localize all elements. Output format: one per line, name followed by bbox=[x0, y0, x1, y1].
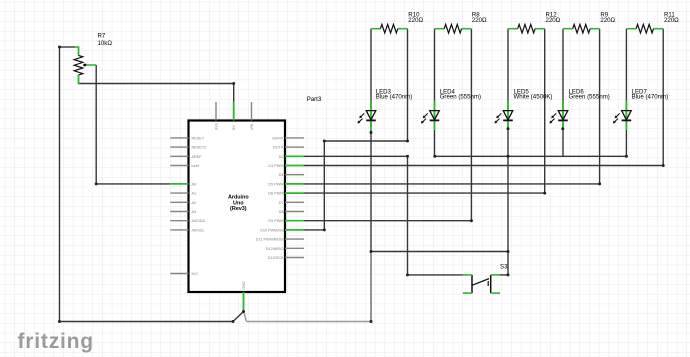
svg-text:RESET: RESET bbox=[192, 136, 205, 140]
svg-text:220Ω: 220Ω bbox=[664, 17, 679, 24]
svg-text:VIN: VIN bbox=[250, 123, 254, 130]
svg-text:RESET2: RESET2 bbox=[192, 146, 207, 150]
svg-text:(Rev3): (Rev3) bbox=[230, 206, 247, 212]
svg-text:R7: R7 bbox=[98, 32, 106, 39]
svg-text:GND: GND bbox=[242, 281, 246, 290]
svg-text:Blue (470nm): Blue (470nm) bbox=[632, 94, 669, 101]
svg-text:S3: S3 bbox=[500, 264, 508, 271]
svg-text:3V3: 3V3 bbox=[215, 123, 219, 130]
svg-text:N/C: N/C bbox=[192, 272, 199, 276]
svg-text:D8: D8 bbox=[279, 210, 284, 214]
svg-text:A2: A2 bbox=[192, 201, 197, 205]
svg-text:D0/RX: D0/RX bbox=[272, 136, 284, 140]
svg-text:Green (555nm): Green (555nm) bbox=[440, 94, 481, 101]
svg-text:D1/TX: D1/TX bbox=[273, 146, 284, 150]
svg-text:AREF: AREF bbox=[192, 155, 203, 159]
svg-text:10kΩ: 10kΩ bbox=[98, 40, 113, 47]
svg-text:White (4500K): White (4500K) bbox=[514, 94, 553, 101]
svg-text:ioref: ioref bbox=[192, 164, 200, 168]
svg-text:220Ω: 220Ω bbox=[408, 17, 423, 24]
svg-text:A3: A3 bbox=[192, 210, 197, 214]
svg-text:D6 PWM: D6 PWM bbox=[268, 192, 283, 196]
svg-text:D12/MISO: D12/MISO bbox=[266, 247, 284, 251]
svg-text:D2: D2 bbox=[279, 155, 284, 159]
svg-text:A1: A1 bbox=[192, 192, 197, 196]
svg-text:D10 PWM/SS: D10 PWM/SS bbox=[260, 228, 284, 232]
svg-text:220Ω: 220Ω bbox=[546, 17, 561, 24]
svg-text:A4/SDA: A4/SDA bbox=[192, 219, 206, 223]
svg-text:A5/SCL: A5/SCL bbox=[192, 228, 205, 232]
svg-text:5V: 5V bbox=[232, 125, 236, 130]
svg-text:D5 PWM: D5 PWM bbox=[268, 182, 283, 186]
svg-text:A0: A0 bbox=[192, 182, 197, 186]
svg-text:Green (555nm): Green (555nm) bbox=[569, 94, 610, 101]
svg-text:D11 PWM/MOSI: D11 PWM/MOSI bbox=[256, 238, 284, 242]
svg-text:220Ω: 220Ω bbox=[472, 17, 487, 24]
svg-text:220Ω: 220Ω bbox=[600, 17, 615, 24]
svg-text:fritzing: fritzing bbox=[18, 330, 94, 353]
svg-text:D4: D4 bbox=[279, 173, 284, 177]
svg-text:D3 PWM: D3 PWM bbox=[268, 164, 283, 168]
svg-text:Blue (470nm): Blue (470nm) bbox=[376, 94, 413, 101]
svg-text:Part3: Part3 bbox=[307, 96, 322, 103]
svg-text:D9 PWM: D9 PWM bbox=[268, 219, 283, 223]
svg-text:D13/SCK: D13/SCK bbox=[268, 256, 284, 260]
svg-text:D7: D7 bbox=[279, 201, 284, 205]
